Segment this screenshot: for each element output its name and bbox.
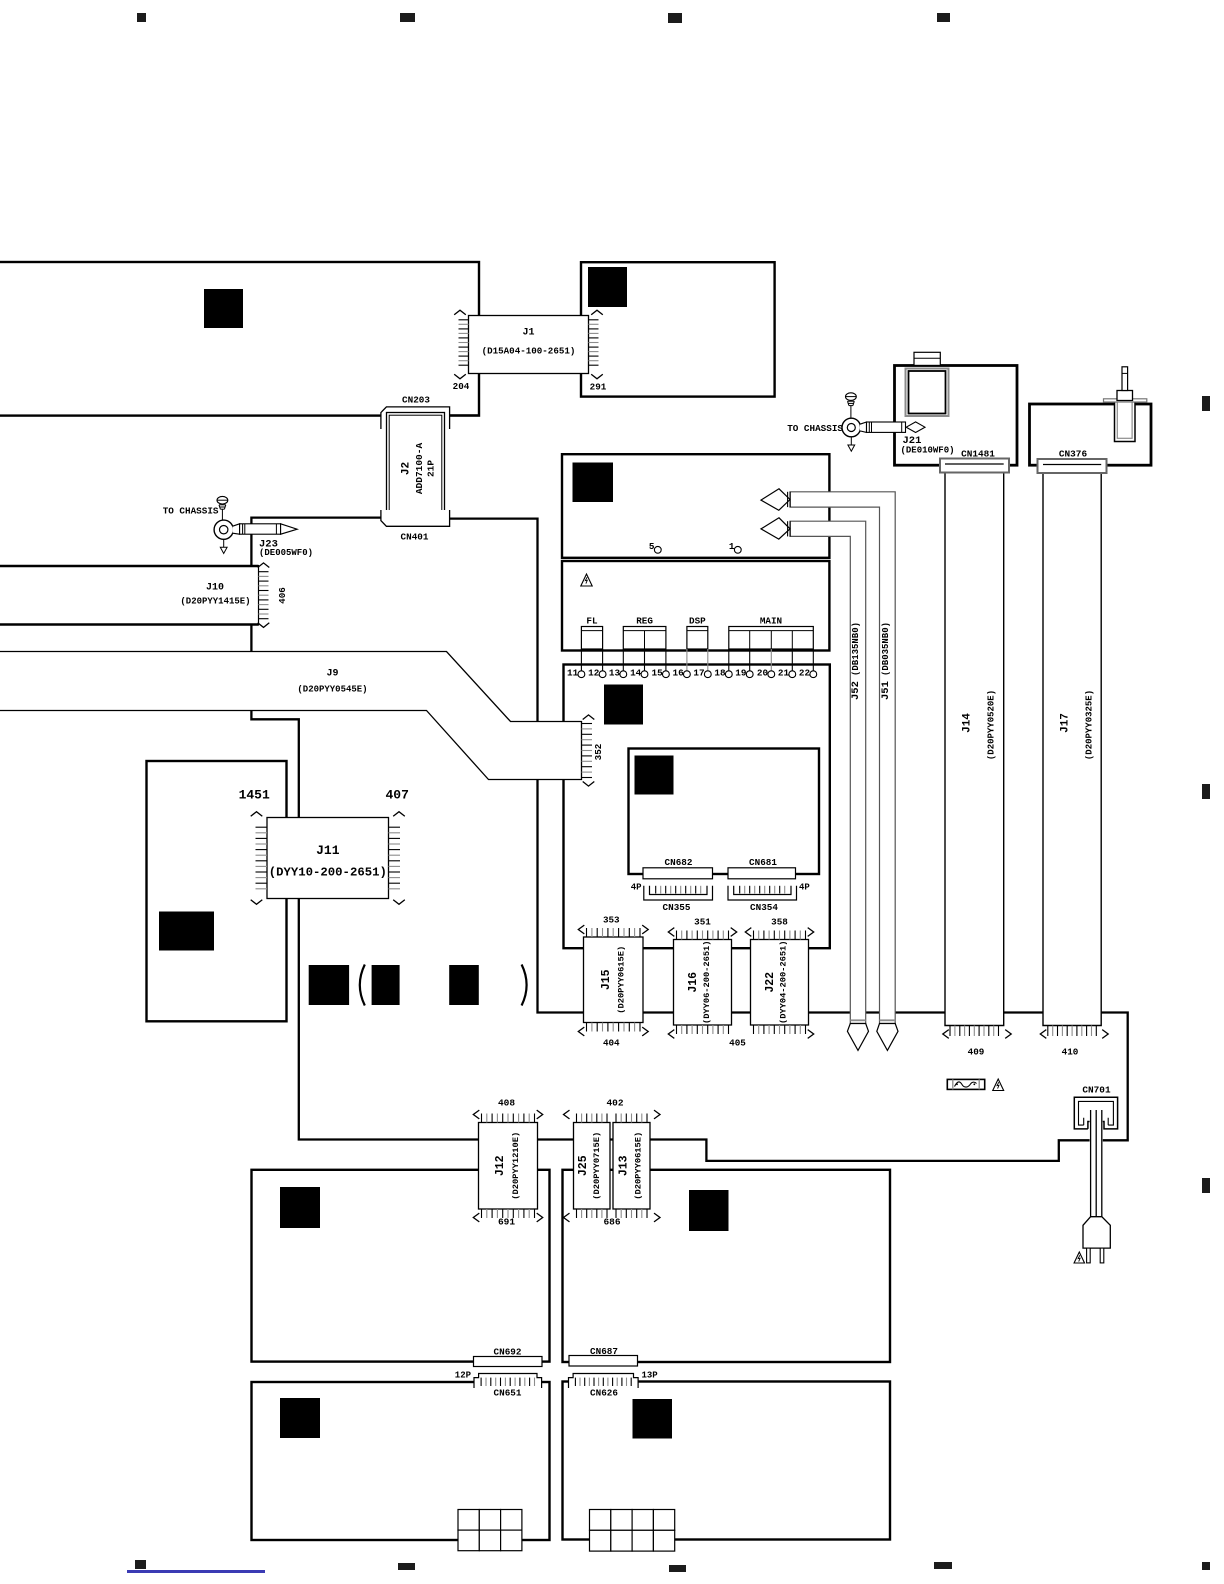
svg-text:J17: J17 bbox=[1059, 713, 1071, 733]
svg-text:(DB135NB0): (DB135NB0) bbox=[851, 622, 861, 676]
ribbon cable J9 (D20PYY0545E) to connector 352 bbox=[0, 652, 582, 780]
svg-text:16: 16 bbox=[673, 668, 685, 679]
board: antenna terminal board bbox=[1030, 404, 1152, 465]
svg-text:204: 204 bbox=[453, 381, 470, 392]
screw to chassis (J21) bbox=[846, 393, 857, 401]
svg-text:TO CHASSIS: TO CHASSIS bbox=[163, 506, 219, 517]
board: jack board with RCA jack and J21 bbox=[895, 366, 1018, 466]
svg-text:4P: 4P bbox=[631, 883, 642, 893]
svg-text:22: 22 bbox=[799, 668, 811, 679]
AC plug prongs bbox=[1087, 1248, 1091, 1263]
svg-text:J51: J51 bbox=[880, 681, 892, 700]
svg-text:MAIN: MAIN bbox=[760, 616, 782, 627]
connector CN692 bbox=[474, 1357, 543, 1367]
svg-text:691: 691 bbox=[498, 1217, 515, 1228]
ribbon cable J14 (D20PYY0520E) from CN1481 to 409 bbox=[945, 464, 1004, 1026]
antenna lead wire J52 (DB135NB0) with plug bbox=[790, 521, 866, 1023]
redacted label blocks bbox=[309, 965, 349, 1005]
svg-text:4P: 4P bbox=[799, 883, 810, 893]
svg-text:CN203: CN203 bbox=[402, 395, 430, 406]
svg-text:(DYY04-200-2651): (DYY04-200-2651) bbox=[779, 941, 789, 1025]
svg-text:(D20PYY1415E): (D20PYY1415E) bbox=[180, 597, 250, 607]
board: bottom-center lower unit bbox=[563, 1382, 891, 1540]
svg-text:FL: FL bbox=[586, 616, 598, 627]
connector CN354 (4P) bbox=[728, 886, 797, 900]
pin wires from blocks to pins 11-22 bbox=[580, 649, 582, 671]
svg-text:CN376: CN376 bbox=[1059, 449, 1088, 460]
connector J22 (DYY04-200-2651) 358/405 bbox=[751, 940, 809, 1026]
svg-text:17: 17 bbox=[693, 668, 704, 679]
board: lower-left unit bbox=[147, 761, 287, 1021]
connector 352 pins bbox=[582, 723, 593, 725]
board: left-middle unit with connector J10 bbox=[0, 566, 259, 625]
svg-text:CN681: CN681 bbox=[749, 857, 777, 868]
connector CN376 bbox=[1038, 459, 1107, 473]
board: bottom-left upper unit bbox=[252, 1170, 550, 1362]
svg-text:CN355: CN355 bbox=[663, 902, 691, 913]
svg-text:J2: J2 bbox=[401, 462, 413, 475]
svg-text:351: 351 bbox=[694, 917, 711, 928]
transformer grid on bottom-center board bbox=[590, 1510, 611, 1531]
svg-text:CN701: CN701 bbox=[1082, 1085, 1111, 1096]
svg-text:21P: 21P bbox=[425, 460, 436, 477]
svg-text:11: 11 bbox=[567, 668, 579, 679]
svg-text:291: 291 bbox=[590, 382, 607, 393]
svg-text:ADD7100-A: ADD7100-A bbox=[414, 443, 425, 495]
connector J16 (DYY06-200-2651) 351/405 bbox=[674, 940, 732, 1026]
svg-text:406: 406 bbox=[277, 587, 288, 604]
warning symbol near fuse bbox=[993, 1079, 1004, 1091]
sub-board on main board bbox=[629, 749, 820, 875]
svg-text:12P: 12P bbox=[455, 1371, 472, 1381]
pin 5 on tuner board bbox=[654, 546, 661, 553]
svg-text:19: 19 bbox=[735, 668, 747, 679]
antenna lead wire J51 (DB035NB0) with plug bbox=[790, 492, 895, 1024]
connector CN687 bbox=[569, 1356, 638, 1367]
svg-text:J13: J13 bbox=[618, 1155, 631, 1176]
connector J25 (D20PYY0715E) 402/686 bbox=[574, 1123, 611, 1210]
svg-text:352: 352 bbox=[593, 743, 604, 760]
svg-text:J1: J1 bbox=[523, 328, 535, 339]
screw to chassis (J23) bbox=[217, 496, 228, 504]
pins 11-22 on main board bbox=[578, 671, 585, 678]
RCA pin jack on jack board bbox=[914, 352, 940, 365]
ground lug J21 (DE010WF0) bbox=[842, 418, 861, 437]
svg-text:1451: 1451 bbox=[239, 788, 270, 803]
svg-text:CN626: CN626 bbox=[590, 1388, 618, 1399]
svg-text:CN401: CN401 bbox=[401, 532, 429, 543]
connector J11 (DYY10-200-2651) bbox=[267, 818, 389, 899]
svg-text:J11: J11 bbox=[316, 843, 340, 858]
svg-text:21: 21 bbox=[778, 668, 790, 679]
svg-text:5: 5 bbox=[649, 541, 655, 552]
fuse symbol bbox=[947, 1079, 984, 1089]
connector CN681 bbox=[728, 868, 796, 879]
svg-text:J12: J12 bbox=[494, 1155, 507, 1176]
svg-text:(D20PYY0545E): (D20PYY0545E) bbox=[297, 685, 367, 695]
power cord bbox=[1090, 1110, 1103, 1218]
connector J1 (D15A04-100-2651) bbox=[469, 316, 589, 374]
warning symbol near plug bbox=[1074, 1252, 1084, 1263]
svg-text:J15: J15 bbox=[600, 969, 613, 990]
svg-text:(DE005WF0): (DE005WF0) bbox=[259, 548, 313, 558]
DSP block bbox=[687, 627, 708, 650]
board: main board (circuit board 3) bbox=[564, 665, 830, 949]
svg-text:409: 409 bbox=[968, 1047, 985, 1058]
svg-text:(D15A04-100-2651): (D15A04-100-2651) bbox=[482, 346, 576, 357]
svg-text:CN682: CN682 bbox=[665, 857, 693, 868]
board: bottom-left lower unit bbox=[252, 1382, 550, 1540]
svg-text:(D20PYY0715E): (D20PYY0715E) bbox=[592, 1132, 602, 1200]
connector shell CN203 bbox=[381, 407, 450, 429]
svg-text:410: 410 bbox=[1062, 1047, 1079, 1058]
svg-text:404: 404 bbox=[603, 1038, 620, 1049]
svg-text:J22: J22 bbox=[764, 972, 777, 993]
svg-text:(DB035NB0): (DB035NB0) bbox=[881, 622, 891, 676]
pin 1 on tuner board bbox=[734, 546, 741, 553]
board: bottom-center upper unit bbox=[563, 1170, 891, 1362]
connector CN682 bbox=[643, 868, 713, 879]
FL block bbox=[581, 627, 602, 650]
svg-text:20: 20 bbox=[757, 668, 769, 679]
transformer grid on bottom-left board bbox=[458, 1510, 479, 1531]
svg-text:J25: J25 bbox=[577, 1155, 590, 1176]
svg-text:13: 13 bbox=[609, 668, 621, 679]
svg-text:(D20PYY0615E): (D20PYY0615E) bbox=[634, 1132, 644, 1200]
svg-text:CN692: CN692 bbox=[494, 1347, 522, 1358]
svg-text:J16: J16 bbox=[687, 972, 700, 993]
svg-text:(DYY10-200-2651): (DYY10-200-2651) bbox=[269, 866, 387, 880]
svg-text:358: 358 bbox=[771, 917, 788, 928]
board: top-left unit (display/front board) bbox=[0, 262, 479, 416]
wire: AC power loop CN401 - J11 - J12 - J13 - CN701 area bbox=[251, 518, 1127, 1161]
svg-text:18: 18 bbox=[714, 668, 726, 679]
svg-text:405: 405 bbox=[729, 1038, 746, 1049]
svg-text:407: 407 bbox=[386, 788, 409, 803]
svg-text:TO CHASSIS: TO CHASSIS bbox=[787, 423, 843, 434]
board: tuner board (with antenna leads) bbox=[562, 454, 829, 558]
ground lug J23 (DE005WF0) bbox=[214, 520, 233, 539]
svg-text:402: 402 bbox=[606, 1098, 623, 1109]
connector J13 (D20PYY0615E) 402/686 bbox=[613, 1123, 650, 1210]
svg-text:(D20PYY0325E): (D20PYY0325E) bbox=[1084, 690, 1094, 760]
connector J2 ADD7100-A body bbox=[387, 413, 445, 525]
board: top-right unit bbox=[581, 262, 775, 396]
svg-text:(D20PYY0520E): (D20PYY0520E) bbox=[986, 690, 996, 760]
svg-text:REG: REG bbox=[636, 616, 653, 627]
ribbon cable J17 (D20PYY0325E) from CN376 to 410 bbox=[1043, 464, 1101, 1026]
svg-text:408: 408 bbox=[498, 1098, 515, 1109]
svg-text:(DYY06-200-2651): (DYY06-200-2651) bbox=[702, 941, 712, 1025]
svg-text:J52: J52 bbox=[850, 681, 862, 700]
svg-text:12: 12 bbox=[588, 668, 600, 679]
svg-text:353: 353 bbox=[603, 915, 620, 926]
power inlet CN701 bbox=[1074, 1097, 1117, 1129]
connector J12 (D20PYY1210E) 408/691 bbox=[479, 1123, 538, 1210]
svg-text:DSP: DSP bbox=[689, 616, 706, 627]
svg-text:1: 1 bbox=[729, 541, 735, 552]
svg-text:(DE010WF0): (DE010WF0) bbox=[901, 446, 955, 456]
svg-text:(D20PYY0615E): (D20PYY0615E) bbox=[616, 946, 626, 1014]
svg-text:(D20PYY1210E): (D20PYY1210E) bbox=[511, 1132, 521, 1200]
svg-text:15: 15 bbox=[652, 668, 664, 679]
svg-text:CN651: CN651 bbox=[494, 1388, 522, 1399]
svg-text:J9: J9 bbox=[327, 669, 339, 680]
warning symbol on driver board bbox=[581, 574, 592, 586]
connector shell CN401 bbox=[381, 510, 450, 526]
connector J15 (D20PYY0615E) 353/404 bbox=[584, 937, 644, 1023]
connector CN355 (4P) bbox=[644, 886, 713, 900]
wire: CN203 to top-left board corner bbox=[450, 414, 479, 416]
connector CN626 (13P) bbox=[569, 1374, 639, 1389]
svg-text:J14: J14 bbox=[961, 713, 973, 733]
connector J10 pins (406) bbox=[259, 571, 269, 573]
svg-text:CN687: CN687 bbox=[590, 1346, 618, 1357]
board: power/driver board with FL REG DSP MAIN blocks bbox=[562, 561, 829, 651]
antenna jack on antenna board bbox=[1115, 402, 1136, 442]
connector CN651 (12P) bbox=[474, 1374, 542, 1389]
svg-text:14: 14 bbox=[630, 668, 642, 679]
MAIN block bbox=[729, 627, 814, 650]
AC plug bbox=[1083, 1217, 1110, 1248]
svg-text:13P: 13P bbox=[642, 1371, 659, 1381]
svg-text:CN1481: CN1481 bbox=[961, 449, 995, 460]
connector CN1481 bbox=[940, 459, 1009, 473]
svg-text:686: 686 bbox=[603, 1217, 620, 1228]
REG block bbox=[623, 627, 666, 650]
svg-text:CN354: CN354 bbox=[750, 902, 778, 913]
svg-text:J10: J10 bbox=[206, 583, 224, 594]
